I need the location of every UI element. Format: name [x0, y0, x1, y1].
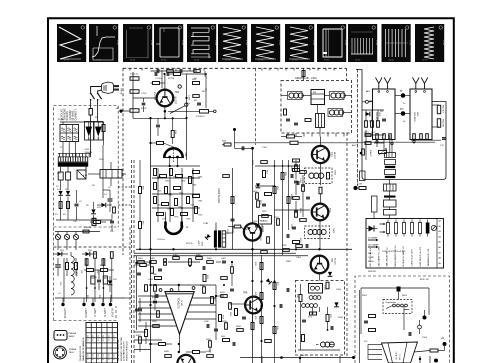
small component: [151, 267, 154, 274]
fuse F1: [89, 109, 92, 116]
chassis black bar 1: [385, 166, 396, 168]
voltage selector grid: [60, 125, 79, 142]
resistor R121: [223, 175, 230, 178]
small component: [237, 329, 244, 332]
wire TR7 to box: [319, 273, 321, 280]
svg-text:+5: +5: [441, 336, 445, 340]
rectifier bridge diode D8: [85, 252, 89, 256]
dashed board corner right: [346, 68, 348, 80]
svg-text:R63: R63: [109, 295, 111, 298]
resistor: [187, 197, 190, 204]
svg-text:R222: R222: [262, 211, 267, 213]
small component: [158, 268, 162, 270]
border frame: [48, 18, 454, 363]
small component: [295, 211, 298, 218]
small component: [261, 251, 268, 254]
small component: [154, 285, 157, 292]
junction dots left column: [260, 280, 262, 282]
wire top right of IF: [255, 68, 257, 145]
svg-text:2V 50: 2V 50: [194, 60, 200, 62]
psu electrolytic E1: [91, 276, 95, 284]
transformer T1 core: [58, 162, 88, 166]
oscillogram photo 6: [218, 24, 247, 62]
wire y142 to chassis box: [304, 142, 362, 144]
small component: [221, 277, 228, 280]
resistor R51: [284, 109, 287, 115]
svg-text:D21: D21: [380, 111, 383, 113]
VHF antenna symbol 2: [384, 78, 391, 84]
small component: [150, 261, 157, 264]
capacitor C60: [154, 72, 156, 76]
small component: [300, 219, 307, 222]
svg-text:S301: S301: [334, 170, 336, 176]
chassis dashed line x=131.5: [131, 160, 133, 363]
svg-text:TR3: TR3: [330, 152, 333, 157]
B1 right part: [327, 172, 330, 179]
vertical wire x232: [232, 168, 234, 249]
svg-text:(T.1 B.S.): (T.1 B.S.): [396, 351, 398, 360]
resistor: [162, 203, 169, 206]
resistor R46: [159, 343, 166, 346]
IC1 pin wire right 4: [185, 318, 216, 320]
PSU lower dashed enclosure: [54, 227, 131, 321]
svg-text:L10: L10: [59, 282, 61, 285]
capacitor C18: [156, 124, 160, 126]
chassis line x=134: [133, 160, 135, 363]
svg-text:C305: C305: [336, 289, 342, 291]
primary feed wires: [90, 150, 92, 153]
resistor R77: [273, 283, 276, 290]
small component: [230, 288, 234, 290]
resistor R2: [59, 202, 62, 209]
svg-text:COND. ELETTR. IN uF 20%: COND. ELETTR. IN uF 20%: [382, 251, 406, 253]
legend box: [366, 219, 444, 269]
node dot 2: [443, 342, 447, 346]
bus wire y255.8: [134, 255, 308, 257]
node x252 y148: [251, 147, 254, 150]
resistor R34b: [287, 135, 295, 138]
small component: [156, 69, 158, 73]
small component: [232, 342, 234, 346]
svg-text:+25V V.: +25V V.: [93, 308, 97, 317]
svg-text:VALORI DI TENSIONE: VALORI DI TENSIONE: [117, 339, 120, 361]
wire x366 riser: [365, 130, 367, 160]
svg-text:5% LAREF: 5% LAREF: [368, 237, 378, 240]
svg-text:A2: A2: [439, 225, 441, 228]
field wiring: [152, 177, 200, 179]
chassis caps C42: [385, 170, 396, 175]
mains plug P1: [102, 82, 114, 94]
small component: [202, 266, 204, 270]
svg-text:R220: R220: [253, 191, 258, 193]
emitter resistor R driver: [319, 187, 322, 194]
svg-text:COMP.: COMP.: [368, 257, 374, 259]
svg-text:C504: C504: [422, 337, 428, 339]
svg-text:T3 AT: T3 AT: [203, 222, 209, 225]
chassis caps C41: [385, 160, 396, 165]
resistor R33: [224, 143, 231, 146]
transistor TR8: [245, 297, 262, 314]
capacitor C33: [286, 234, 288, 238]
svg-text:TARATURE DI FABBRICA: TARATURE DI FABBRICA: [82, 337, 85, 361]
svg-text:0.5 12V: 0.5 12V: [98, 334, 100, 341]
fuse F3: [64, 234, 69, 239]
svg-text:A1: A1: [439, 220, 441, 223]
resistor: [181, 213, 188, 216]
resistor R17: [157, 142, 164, 145]
resistor R57: [263, 171, 266, 178]
svg-text:R17 120: R17 120: [153, 92, 155, 101]
transformer T1 taps: [60, 167, 62, 172]
VHF box pin resistors: [376, 134, 379, 140]
wire TR3 emitter: [320, 163, 322, 185]
wire upper links: [187, 73, 207, 75]
capacitor C1: [75, 203, 79, 205]
regulator box A: [77, 170, 86, 179]
oscillator dashed box: [296, 281, 345, 356]
svg-text:CL200: CL200: [333, 258, 335, 265]
dashed divider y247: [54, 246, 131, 248]
small component: [296, 245, 303, 248]
strip capacitor: [135, 308, 139, 310]
left riser x361: [360, 288, 362, 334]
node dot x355 y188: [353, 186, 357, 190]
svg-text:C23 2u2: C23 2u2: [157, 239, 166, 241]
oscillogram photo 4: [154, 24, 183, 62]
legend arrow LAREF 2: [368, 246, 376, 248]
psu extra comps: [83, 230, 89, 233]
wire base TR1 from x133: [133, 97, 157, 99]
svg-text:R171: R171: [364, 132, 369, 134]
capacitor C16: [142, 102, 146, 104]
svg-text:R.203: R.203: [141, 108, 147, 110]
resistor: [189, 177, 192, 184]
legend trimmer symbol: [431, 225, 436, 230]
switch S1b: [98, 93, 102, 99]
wire modules link1: [395, 95, 401, 97]
junction x186: [185, 97, 187, 99]
IC2 pin wires: [368, 344, 382, 346]
tuner module box VHF: [373, 89, 396, 140]
junction dots bottom: [178, 351, 180, 353]
vertical wire x282: [282, 160, 284, 255]
wire fuse bus: [55, 231, 100, 233]
psu resistor RB3: [110, 252, 113, 259]
chassis wires: [366, 134, 384, 136]
small component: [167, 70, 174, 73]
resistor: [160, 175, 167, 178]
wire to TR4: [320, 194, 322, 204]
vertical wire x274b: [274, 255, 276, 363]
legend symbol leads: [387, 220, 389, 223]
svg-text:C61: C61: [80, 270, 82, 273]
capacitor C30: [296, 181, 298, 185]
resistor: [154, 183, 157, 190]
svg-text:TAB. VALORI NR. 12: TAB. VALORI NR. 12: [386, 247, 389, 267]
bus wire y252.5: [134, 252, 296, 254]
svg-text:V.301 TELAIO: V.301 TELAIO: [217, 188, 220, 203]
test point circles above IC1: [159, 289, 162, 292]
chassis black bar 2: [385, 176, 396, 178]
resistor R41: [203, 275, 206, 282]
TR2 dashed center line: [173, 147, 175, 163]
dashed board boundary line: [122, 68, 124, 255]
resistor R60: [293, 241, 300, 244]
bottom right dashed enclosure: [355, 276, 450, 363]
wire yoke to bus: [165, 212, 167, 216]
legend divider: [436, 219, 438, 269]
resistor R4: [94, 221, 101, 224]
svg-text:R502: R502: [402, 295, 408, 297]
vertical wire x252: [252, 148, 254, 223]
flyback top lead: [215, 223, 217, 231]
yoke leads: [165, 216, 167, 222]
horizontal wire y148: [236, 147, 253, 149]
open circle test point: [418, 325, 422, 329]
svg-text:TDA1170: TDA1170: [177, 298, 180, 309]
capacitor C32: [290, 174, 292, 178]
svg-text:R224: R224: [274, 217, 279, 219]
node dot 1: [423, 316, 427, 320]
svg-text:PRESE DI SERVIZIO: PRESE DI SERVIZIO: [126, 341, 128, 361]
wire x216 vertical: [215, 285, 217, 340]
wire x357 riser: [357, 69, 359, 186]
small component: [138, 261, 145, 264]
capacitor C31: [262, 203, 266, 205]
electrolytic CE1: [92, 218, 96, 225]
svg-text:V.100: V.100: [245, 40, 247, 46]
resistor R72: [326, 315, 329, 322]
svg-text:C62: C62: [96, 270, 98, 273]
resistor R43: [219, 315, 222, 322]
resistor R44: [223, 339, 230, 342]
oscillogram photo 9: [317, 24, 346, 62]
capacitor C27: [138, 308, 142, 310]
IC1 pin wire right 3: [187, 311, 216, 313]
DIN socket J2: [54, 346, 67, 359]
IC1 TDA1170 triangle: [165, 292, 194, 335]
wire TR2 base: [164, 143, 174, 147]
psu resistor RB4: [102, 259, 105, 266]
svg-text:V.100: V.100: [116, 40, 118, 46]
resistor R132: [277, 219, 280, 226]
svg-text:T.202: T.202: [226, 229, 228, 235]
node AT1: [401, 93, 406, 98]
svg-text:TR7: TR7: [330, 258, 332, 263]
oscillogram photo 11: [382, 24, 411, 62]
svg-text:0.5 12V: 0.5 12V: [87, 353, 89, 360]
svg-text:V.100: V.100: [442, 40, 444, 46]
thyristor D1: [85, 122, 94, 141]
plug pin 1: [114, 85, 120, 87]
IC U3 box: [259, 216, 272, 225]
small component: [193, 95, 200, 98]
svg-text:+270V B.: +270V B.: [63, 308, 67, 319]
filter capacitor C3: [55, 264, 61, 266]
wire TR1 emitter: [164, 106, 166, 118]
+6V3 output node: [109, 303, 112, 306]
svg-text:S.RETE: S.RETE: [84, 227, 92, 229]
small component: [261, 161, 268, 164]
diode D13 top right of osc box: [328, 272, 332, 276]
psu resistor RB2: [94, 252, 97, 259]
svg-text:UHF: UHF: [416, 112, 418, 117]
small dashed box remote: [383, 300, 412, 314]
svg-text:R310: R310: [338, 317, 344, 319]
svg-text:2V 50: 2V 50: [422, 60, 428, 62]
small component: [137, 272, 141, 274]
capacitor C25: [214, 328, 218, 330]
small component: [294, 180, 298, 182]
svg-text:C220: C220: [253, 221, 258, 223]
svg-text:20 KOHM/V MOD.TV: 20 KOHM/V MOD.TV: [124, 341, 126, 361]
small component: [164, 259, 167, 266]
resistor R76: [260, 317, 263, 324]
resistor: [170, 169, 173, 176]
small component: [139, 337, 142, 344]
diode D11: [334, 302, 338, 306]
svg-text:IN OHM 5% WATT 1/4: IN OHM 5% WATT 1/4: [402, 246, 405, 267]
vertical wire x136.5: [136, 256, 138, 330]
IF coil L3: [331, 93, 336, 98]
IC1 pin wire left 1: [138, 295, 167, 297]
resistor R12: [153, 82, 160, 85]
fuse box FB2: [66, 172, 71, 180]
svg-text:V.100: V.100: [181, 40, 183, 46]
wire UHF to resistors: [432, 104, 439, 106]
dash row stubs: [129, 68, 131, 70]
svg-text:V.100: V.100: [375, 40, 377, 46]
svg-text:R302: R302: [286, 261, 292, 263]
UHF box pin resistors: [413, 134, 416, 140]
legend resistor symbol 3: [403, 223, 406, 234]
svg-text:0.5 12V: 0.5 12V: [93, 353, 95, 360]
+25V output node: [91, 303, 94, 306]
svg-text:R.206 10: R.206 10: [196, 116, 205, 118]
vertical wire x274: [274, 160, 276, 255]
resistor R3: [67, 202, 70, 209]
svg-text:R62: R62: [98, 295, 100, 298]
resistor R53: [293, 169, 300, 172]
resistor R40: [155, 277, 162, 280]
svg-text:ELETTROLIT. uF 25V: ELETTROLIT. uF 25V: [420, 246, 422, 266]
resistor R133: [283, 249, 290, 252]
fuse box FB1: [58, 172, 63, 180]
chassis small parts: [365, 134, 371, 137]
output transistor TR10: [177, 355, 194, 363]
svg-text:AM: AM: [400, 108, 403, 111]
small component: [257, 201, 260, 208]
capacitor C26: [155, 294, 157, 298]
svg-text:2V 50: 2V 50: [161, 60, 167, 62]
stack left small box: [372, 196, 378, 212]
output rail wire: [55, 297, 124, 299]
svg-text:+6,3V A.: +6,3V A.: [111, 308, 115, 318]
B2 coils: [308, 230, 313, 235]
small component: [293, 197, 300, 200]
capacitor C20: [241, 146, 243, 150]
vertical wire x288: [288, 160, 290, 230]
wire TR8 base: [230, 303, 245, 305]
resistor R8: [101, 269, 108, 272]
extra junction dots: [149, 261, 151, 263]
IC2 internal lines: [388, 343, 393, 363]
svg-text:V.100: V.100: [344, 40, 346, 46]
svg-text:2V 50: 2V 50: [292, 60, 298, 62]
svg-text:BU107: BU107: [174, 97, 177, 105]
svg-text:2V 50: 2V 50: [355, 60, 361, 62]
coil box B2 dashed: [305, 226, 330, 239]
svg-text:A4: A4: [439, 235, 441, 238]
IC1 pin wire left 4: [138, 313, 173, 315]
svg-text:A6: A6: [439, 246, 441, 249]
wires br misc: [419, 320, 421, 325]
node dot 3: [434, 359, 438, 363]
small component: [207, 261, 214, 264]
IF transformer T4: [316, 114, 325, 128]
IC1 pin wire right 2: [190, 304, 216, 306]
resistor: [165, 187, 168, 194]
resistor: [175, 199, 178, 206]
bottom wire y340: [134, 339, 162, 341]
flyback winding right: [222, 231, 226, 247]
svg-text:C.205: C.205: [188, 95, 190, 101]
small component: [302, 185, 305, 192]
UHF pins: [415, 91, 417, 93]
svg-text:PRESA: PRESA: [69, 332, 77, 335]
resistor: [171, 209, 174, 216]
svg-text:2V 50: 2V 50: [324, 60, 330, 62]
diode D10: [256, 183, 260, 187]
svg-text:AGC: AGC: [352, 144, 357, 147]
resistor R73: [302, 335, 305, 342]
capacitor C50: [302, 319, 306, 321]
trimmer row in dashed box: [393, 304, 396, 307]
small component: [305, 244, 307, 248]
osc box coil row: [302, 304, 306, 308]
svg-text:TR8: TR8: [243, 293, 248, 295]
IC1 pin wire left 6: [138, 325, 177, 327]
svg-text:R63 10k: R63 10k: [442, 119, 444, 128]
TR2 leads: [169, 158, 171, 166]
small component: [179, 69, 181, 73]
resistor: [193, 171, 200, 174]
cap C70: [442, 137, 446, 139]
test point TP2: [185, 103, 188, 106]
diode D5: [91, 209, 95, 213]
svg-text:2V 50: 2V 50: [64, 60, 70, 62]
resistor R14: [174, 73, 181, 76]
IC1 pin wire left 2: [138, 301, 169, 303]
flyback core bar 2: [218, 230, 221, 247]
svg-text:C.202: C.202: [141, 93, 147, 95]
IC2 pin bus: [367, 345, 369, 360]
chassis outline box: [356, 70, 446, 180]
decoupling stack cap C43: [384, 184, 397, 191]
voltage table: [86, 323, 118, 363]
wire node to x133: [121, 110, 130, 112]
svg-text:V.100: V.100: [214, 40, 216, 46]
svg-text:2V 50: 2V 50: [389, 60, 395, 62]
regulator box B: [100, 170, 122, 179]
resistor R56: [287, 197, 290, 204]
svg-text:GRUPPO MF - V.201: GRUPPO MF - V.201: [295, 78, 317, 80]
svg-text:R172: R172: [371, 132, 376, 134]
UHF antenna symbol 2: [421, 78, 428, 84]
capacitor C28: [242, 316, 246, 318]
wires below VHF box: [376, 140, 378, 148]
riser x429: [428, 288, 430, 315]
